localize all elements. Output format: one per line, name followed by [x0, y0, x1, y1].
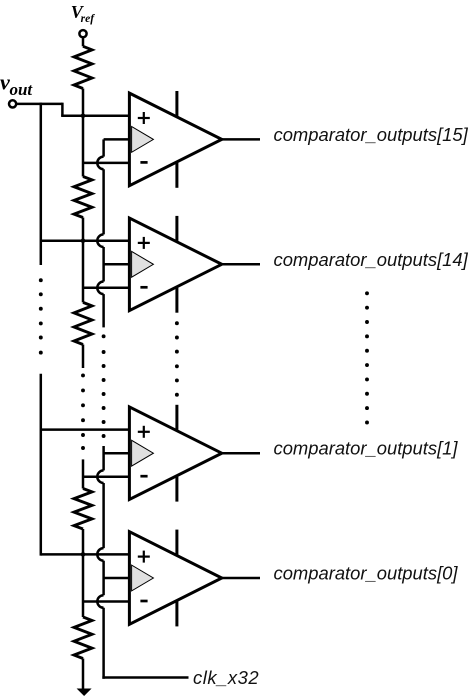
- terminal v_out: [9, 100, 16, 107]
- resistor R3: [74, 302, 92, 344]
- wire v_out bus to U3 plus input: [41, 428, 130, 431]
- clock bar top U4: [175, 530, 178, 555]
- pin minus U4: [140, 600, 147, 603]
- terminal V_ref: [79, 30, 86, 37]
- wire v_out bus to U2 plus input: [41, 239, 130, 242]
- pin plus U3: [138, 431, 150, 433]
- op-amp U4 comparator: [129, 532, 221, 625]
- op-amp U1 comparator: [129, 93, 221, 186]
- clock bar bottom U2: [175, 288, 178, 313]
- pin plus U1: [138, 117, 150, 119]
- wire ladder tap to U2 minus input: [83, 287, 129, 290]
- wire v_out bus lower: [40, 374, 43, 556]
- svg-text:comparator_outputs[1]: comparator_outputs[1]: [274, 438, 459, 459]
- wire v_out bus to U4 plus input: [41, 553, 130, 556]
- wire clk to U2 latch input: [104, 263, 130, 266]
- wire ladder tap to U4 minus input: [83, 600, 129, 603]
- wire U3 output: [222, 452, 260, 455]
- dotted continuation outputs: [365, 291, 369, 295]
- wire U4 output: [222, 577, 260, 580]
- dotted continuation clock bars: [175, 321, 179, 325]
- wire U1 output: [222, 138, 260, 141]
- wire v_out step down: [61, 103, 64, 116]
- wire ladder R1-R2: [82, 89, 85, 177]
- junction ladder tap node 4: [81, 552, 86, 557]
- wire ladder tap to U3 minus input: [83, 475, 129, 478]
- wire to comparator U1 plus input: [61, 115, 129, 118]
- wire clk to U3 latch input: [104, 452, 130, 455]
- latch buffer triangle U1: [132, 127, 154, 153]
- op-amp U3 comparator: [129, 407, 221, 500]
- wire clk to U4 latch input: [104, 577, 130, 580]
- pin plus U2: [138, 242, 150, 244]
- clock bar top U3: [175, 405, 178, 430]
- clock bar bottom U1: [175, 163, 178, 188]
- wire V_ref to R1: [82, 38, 85, 47]
- pin minus U3: [140, 475, 147, 478]
- wire ladder above R4: [82, 459, 85, 488]
- op-amp U2 comparator: [129, 218, 221, 311]
- resistor R5: [74, 617, 92, 659]
- wire clk bus upper: [102, 139, 105, 156]
- svg-text:comparator_outputs[0]: comparator_outputs[0]: [274, 563, 459, 584]
- wire v_out bus dotted: [39, 278, 43, 282]
- wire ladder tap to U1 minus input: [83, 162, 129, 165]
- wire v_out horizontal: [16, 103, 62, 106]
- clock bar bottom U3: [175, 477, 178, 502]
- junction ladder tap node 2: [81, 238, 86, 243]
- svg-text:vout: vout: [0, 69, 33, 99]
- pin minus U2: [140, 286, 147, 289]
- latch buffer triangle U4: [132, 565, 154, 591]
- wire ladder below R5 to ground: [82, 659, 85, 690]
- wire clk bus dotted: [102, 334, 106, 338]
- svg-text:comparator_outputs[15]: comparator_outputs[15]: [274, 124, 469, 145]
- svg-text:clk_x32: clk_x32: [193, 667, 259, 688]
- wire U2 output: [222, 263, 260, 266]
- wire ladder dotted: [81, 373, 85, 377]
- latch buffer triangle U3: [132, 440, 154, 466]
- clock bar top U2: [175, 216, 178, 241]
- resistor R1: [74, 46, 92, 88]
- resistor R2: [74, 177, 92, 218]
- latch buffer triangle U2: [132, 251, 154, 277]
- wire clk bus lower: [102, 446, 105, 470]
- svg-text:comparator_outputs[14]: comparator_outputs[14]: [274, 249, 469, 270]
- wire ladder below R3: [82, 345, 85, 369]
- pin plus U4: [138, 555, 150, 557]
- wire ladder R4-R5: [82, 529, 85, 617]
- junction ladder tap node 1: [81, 114, 86, 119]
- pin minus U1: [140, 161, 147, 164]
- wire clk to U1 latch input: [104, 138, 130, 141]
- wire ladder R2-R3: [82, 218, 85, 303]
- ground: [77, 689, 92, 696]
- resistor R4: [74, 489, 92, 530]
- wire clk horizontal: [102, 676, 188, 679]
- wire v_out bus upper: [40, 103, 43, 265]
- clock bar top U1: [175, 91, 178, 116]
- svg-text:Vref: Vref: [71, 2, 95, 25]
- clock bar bottom U4: [175, 601, 178, 626]
